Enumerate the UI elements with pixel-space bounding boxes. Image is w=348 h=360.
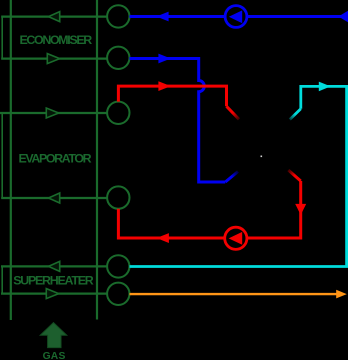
- circulating pump P2: [225, 227, 247, 249]
- cyan diagonal out of drum (fading): [290, 109, 301, 120]
- steam arrow right: [319, 82, 331, 92]
- svg-text:ECONOMISER: ECONOMISER: [20, 33, 93, 47]
- economiser outlet blue line: [130, 59, 226, 183]
- downcomer arrow down: [295, 204, 306, 215]
- economiser outlet arrow right: [158, 54, 170, 64]
- superheater tube top: [1, 265, 107, 267]
- flow arrow left evaporator bottom: [49, 193, 60, 203]
- svg-text:EVAPORATOR: EVAPORATOR: [19, 151, 92, 165]
- flow arrow left superheater top: [49, 261, 60, 271]
- header circle 5 superheater inlet: [107, 255, 129, 277]
- steam drum particle: [261, 156, 263, 158]
- flow arrow left economiser top: [49, 12, 60, 22]
- svg-text:GAS: GAS: [43, 351, 66, 360]
- evaporator downcomer red line: [118, 181, 300, 238]
- duct wall left: [10, 0, 12, 320]
- header circle 6 superheater outlet: [107, 283, 129, 305]
- feedwater pump P1: [225, 6, 247, 28]
- feedwater arrow left at right edge: [338, 10, 348, 22]
- orange arrow right: [336, 290, 347, 299]
- riser arrow right: [158, 81, 170, 91]
- downcomer arrow left: [157, 233, 169, 243]
- feedwater arrow left mid: [156, 12, 168, 22]
- economiser tube bottom: [1, 57, 107, 59]
- flow arrow right superheater bottom: [46, 289, 58, 299]
- header circle 2 economiser outlet: [107, 47, 129, 69]
- gas inlet block arrow: [40, 323, 67, 348]
- evaporator tube bottom: [1, 197, 107, 199]
- flow arrow right economiser bottom: [47, 54, 59, 64]
- duct wall right: [96, 0, 98, 320]
- header circle 3 evaporator riser header: [107, 102, 129, 124]
- saturated steam cyan line: [130, 86, 347, 266]
- red diagonal into drum (fading): [227, 106, 240, 119]
- flow arrow right evaporator top: [46, 108, 58, 118]
- feedwater line blue top: [130, 15, 348, 18]
- evaporator riser red line: [118, 86, 226, 106]
- header circle 4 evaporator downcomer header: [107, 186, 129, 208]
- red diagonal out of drum (fading): [288, 170, 300, 181]
- superheater tube bottom: [1, 293, 107, 295]
- svg-text:SUPERHEATER: SUPERHEATER: [13, 274, 94, 288]
- superheater return bend: [1, 266, 3, 293]
- header circle 1 economiser inlet: [107, 5, 129, 27]
- superheated steam orange line: [130, 293, 338, 295]
- economiser return bend: [1, 17, 3, 59]
- economiser tube top: [1, 16, 107, 18]
- blue diagonal into drum (fading): [225, 172, 238, 183]
- evaporator return bend: [1, 113, 3, 198]
- evaporator tube top: [0, 112, 107, 114]
